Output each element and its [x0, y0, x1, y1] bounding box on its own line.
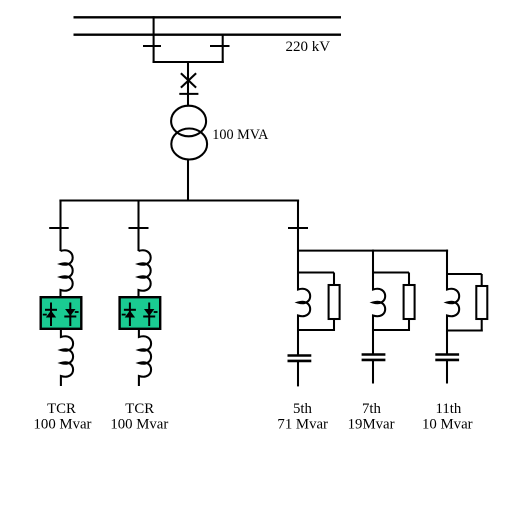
- TCR1 upper reactor L: [61, 250, 73, 296]
- transformer T1 winding 1: [171, 106, 206, 137]
- svg-text:19Mvar: 19Mvar: [348, 417, 395, 433]
- connector joining drops: [153, 61, 224, 63]
- filter feed disconnector tick: [288, 227, 308, 229]
- top connector: [297, 271, 334, 273]
- wire to capacitor: [372, 330, 374, 354]
- svg-text:TCR: TCR: [47, 401, 76, 417]
- wire drop from bus line 2: [222, 34, 224, 63]
- resistor R5: [329, 285, 340, 319]
- reactor L5: [298, 274, 310, 331]
- disconnector tick below breaker: [179, 93, 198, 95]
- reactor L7: [373, 274, 385, 331]
- svg-text:71 Mvar: 71 Mvar: [277, 417, 328, 433]
- disconnector tick left: [143, 45, 161, 47]
- filter branch 11th: [435, 250, 487, 384]
- resistor R7: [404, 285, 415, 319]
- svg-text:100 MVA: 100 MVA: [212, 127, 269, 143]
- TCR1 disconnector tick: [49, 227, 68, 229]
- svg-text:7th: 7th: [362, 401, 382, 417]
- TCR1 thyristor down: [64, 303, 78, 327]
- reactor L11: [447, 275, 459, 332]
- svg-text:5th: 5th: [293, 401, 313, 417]
- svg-text:220 kV: 220 kV: [286, 39, 331, 55]
- LV bus: [59, 199, 299, 201]
- filter branch 7th: [362, 250, 415, 384]
- wire transformer to LV bus: [187, 160, 189, 202]
- capacitor C5: [288, 354, 312, 357]
- breaker X: [181, 73, 196, 87]
- filter branch 5th: [288, 273, 340, 387]
- TCR2 disconnector tick: [129, 227, 149, 229]
- transformer T1 winding 2: [171, 129, 207, 160]
- TCR2 thyristor down: [143, 303, 157, 327]
- capacitor C7: [362, 353, 386, 356]
- svg-text:100 Mvar: 100 Mvar: [110, 417, 168, 433]
- filter sub-bus: [298, 250, 448, 252]
- TCR branch 1 wire: [59, 201, 61, 252]
- wire to capacitor: [297, 330, 299, 355]
- TCR1 lower reactor L: [61, 330, 73, 386]
- capacitor C11: [435, 353, 459, 356]
- svg-text:TCR: TCR: [125, 401, 154, 417]
- resistor drop: [333, 273, 335, 285]
- TCR2 thyristor up: [122, 303, 136, 327]
- svg-text:100 Mvar: 100 Mvar: [34, 417, 92, 433]
- TCR1 thyristor valve box: [41, 297, 82, 329]
- TCR2 upper reactor L: [139, 250, 151, 296]
- TCR branch 2 wire: [137, 201, 139, 252]
- busbar 220kV line 1: [74, 16, 342, 18]
- filter feed wire: [297, 201, 299, 274]
- TCR2 lower reactor L: [139, 330, 151, 386]
- bottom connector: [297, 329, 335, 331]
- busbar 220kV line 2: [74, 34, 342, 36]
- wire to capacitor: [446, 331, 448, 355]
- wire drop from bus line 1: [153, 16, 155, 63]
- svg-text:11th: 11th: [436, 401, 462, 417]
- svg-text:10 Mvar: 10 Mvar: [422, 417, 473, 433]
- wire to breaker: [187, 62, 189, 106]
- resistor R11: [476, 286, 487, 319]
- TCR1 thyristor up: [43, 303, 57, 327]
- TCR2 thyristor valve box: [120, 297, 161, 329]
- disconnector tick right: [210, 45, 230, 47]
